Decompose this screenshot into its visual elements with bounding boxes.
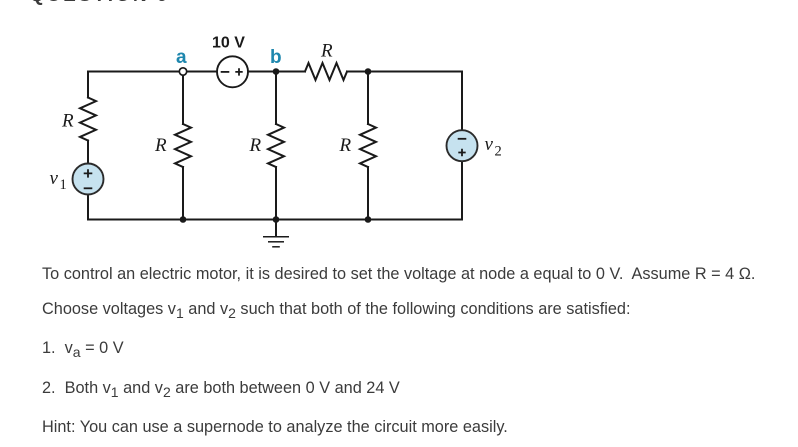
ground <box>263 220 289 247</box>
svg-text:v: v <box>50 168 59 189</box>
resistor R (branch at node b) <box>268 124 284 167</box>
label v1 <box>50 168 67 193</box>
wire node a vertical lead <box>182 72 184 125</box>
svg-text:R: R <box>339 135 352 156</box>
wire left vertical top segment <box>87 72 89 98</box>
label R (left branch) <box>61 110 74 131</box>
voltage source 10V <box>217 56 248 87</box>
wire third branch upper lead <box>367 72 369 125</box>
svg-text:R: R <box>249 135 262 156</box>
label 10 V <box>212 35 245 52</box>
wire right vertical top segment <box>461 72 463 131</box>
wire top-right horizontal (resistor to right corner) <box>347 71 462 73</box>
source v2 <box>447 130 478 161</box>
source v1 <box>73 164 104 195</box>
wire v2 source to bottom-right corner <box>461 161 463 219</box>
label v2 <box>485 134 502 160</box>
svg-text:R: R <box>154 135 167 156</box>
svg-text:2: 2 <box>495 144 502 160</box>
wire node b vertical lead <box>275 72 277 125</box>
svg-text:10 V: 10 V <box>212 35 245 52</box>
svg-text:v: v <box>485 134 494 155</box>
label a <box>176 47 187 68</box>
junction bottom third branch <box>365 216 372 223</box>
wire v1 source to bottom-left corner <box>87 195 89 220</box>
wire 10V source to node b and resistor lead <box>248 71 305 73</box>
junction bottom node b branch <box>273 216 280 223</box>
wire third branch lower lead <box>367 167 369 220</box>
svg-text:R: R <box>61 110 74 131</box>
resistor R (third branch) <box>360 124 376 167</box>
wire resistor to v1 source <box>87 141 89 164</box>
svg-text:R: R <box>320 41 333 62</box>
label R (third branch) <box>339 135 352 156</box>
junction top right branch <box>365 68 372 75</box>
label R (node a branch) <box>154 135 167 156</box>
resistor R (left branch, in series with v1) <box>80 98 96 141</box>
svg-text:1: 1 <box>60 177 67 193</box>
wire bottom horizontal <box>88 219 462 221</box>
svg-text:b: b <box>270 47 282 68</box>
label R (node b branch) <box>249 135 262 156</box>
junction bottom node a branch <box>180 216 187 223</box>
node a <box>179 68 186 75</box>
label R (top horizontal resistor) <box>320 41 333 62</box>
resistor R (branch at node a) <box>175 124 191 167</box>
wire node b branch lower lead <box>275 167 277 220</box>
node b <box>273 68 280 75</box>
svg-text:a: a <box>176 47 187 68</box>
wire node a branch lower lead <box>182 167 184 220</box>
label b <box>270 47 282 68</box>
wire top-left horizontal (corner to 10V source) <box>88 71 217 73</box>
resistor R (top horizontal between node b and right branch) <box>305 63 347 80</box>
